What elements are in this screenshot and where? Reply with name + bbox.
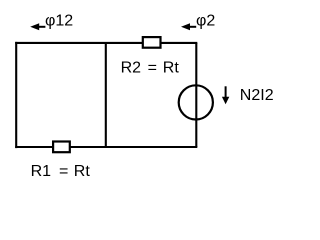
svg-text:R1=Rt: R1=Rt — [31, 163, 91, 180]
svg-text:φ12: φ12 — [45, 12, 73, 29]
svg-text:N2I2: N2I2 — [240, 87, 274, 104]
svg-text:R2=Rt: R2=Rt — [121, 59, 180, 76]
svg-text:φ2: φ2 — [196, 12, 215, 29]
